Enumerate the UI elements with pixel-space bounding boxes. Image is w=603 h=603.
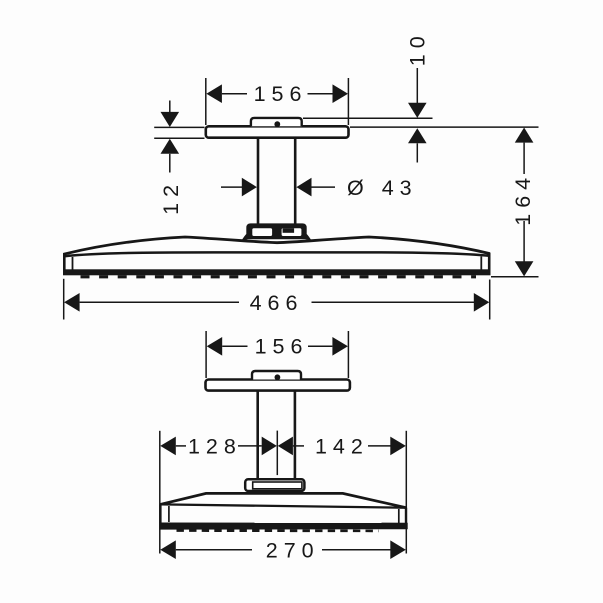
dim 10: vertical line below	[416, 143, 418, 162]
head rim top line (bottom view)	[160, 504, 406, 507]
head rim inner line (top view)	[65, 252, 490, 256]
svg-text:10: 10	[406, 30, 430, 66]
dim 156 bottom: line left segment	[222, 345, 247, 347]
dim 164: label (rotated)	[511, 172, 535, 226]
head dome outline (top view)	[64, 237, 490, 254]
svg-text:270: 270	[266, 538, 320, 562]
dim 164: bottom extension line	[491, 276, 539, 278]
union nut (top view) left cell	[252, 228, 272, 236]
dim diameter 43: left tail line	[221, 186, 242, 188]
dim 142: right arrow	[390, 437, 406, 456]
spray face band (top view)	[63, 269, 491, 275]
head left bevel line (top view)	[72, 257, 74, 270]
dim 270: line right segment	[322, 549, 391, 551]
dim 142: left line segment	[293, 445, 304, 447]
dim 156 top: right extension line	[347, 78, 349, 125]
shower arm column left edge (bottom view)	[256, 391, 259, 480]
dim 466: line right segment	[312, 301, 475, 303]
dim 128/142: left extension line	[159, 431, 161, 554]
spray nozzle teeth (top view)	[81, 275, 477, 278]
dim 164: up arrow	[515, 128, 534, 143]
dim 10: flange-top extension line (right)	[303, 117, 433, 119]
dim 466: left arrow	[64, 293, 80, 312]
dim 270: left arrow	[160, 540, 176, 559]
mounting flange (top view)	[251, 118, 302, 126]
head right bevel line (top view)	[480, 257, 482, 271]
dim 12: vertical line above	[169, 101, 171, 113]
union nut (top view) right cell clip detail	[283, 228, 295, 233]
shower arm column right edge (bottom view)	[294, 391, 297, 480]
dim 156 top: left extension line	[205, 78, 207, 125]
svg-text:466: 466	[250, 291, 304, 315]
shower arm column left edge (top view)	[257, 138, 260, 226]
dim 10: label (rotated)	[406, 30, 430, 66]
dim 142: right tail line	[368, 445, 391, 447]
dim 12: down arrow	[161, 112, 180, 127]
svg-text:128: 128	[188, 434, 242, 458]
head left bevel line (bottom view)	[168, 506, 170, 522]
dim 156 top: right arrow	[333, 84, 349, 103]
dim 164: lower line	[523, 221, 525, 262]
head left edge (bottom view)	[159, 504, 161, 523]
dim 156 top: line right segment	[308, 93, 333, 95]
union nut (bottom view) outer	[245, 479, 304, 491]
dim 12: up arrow	[161, 139, 180, 154]
flange screw dot (top view)	[274, 121, 280, 127]
dim 128/142: right extension line	[405, 431, 407, 554]
spray face band (bottom view)	[159, 523, 408, 530]
svg-text:156: 156	[254, 82, 308, 106]
dim 12: vertical line below	[169, 154, 171, 173]
ceiling plate (top view)	[206, 126, 349, 137]
dim 466: left extension line	[63, 279, 65, 320]
mounting flange (bottom view)	[252, 371, 301, 380]
dim 156 bottom: left arrow	[207, 337, 223, 356]
head left edge (top view)	[63, 253, 66, 272]
dim 10: up arrow	[408, 128, 427, 143]
dim 466: line left segment	[80, 301, 239, 303]
dim 156 bottom: left extension line	[205, 331, 207, 378]
dim 10: down arrow	[408, 103, 427, 118]
dim 128: right line segment	[238, 445, 262, 447]
dim 156 top: left arrow	[206, 84, 222, 103]
svg-text:156: 156	[255, 335, 309, 359]
dim 12: lower extension line (plate bottom, left)	[154, 137, 204, 139]
dim 270: right arrow	[390, 540, 406, 559]
dim 128: bowtie right-pointing arrow	[262, 437, 277, 456]
dim 164: upper line	[523, 143, 525, 174]
head trapezoid outline (bottom view)	[160, 493, 406, 507]
union nut (top view) body with flared feet	[242, 223, 312, 240]
dim diameter 43: left arrow (points right)	[242, 178, 257, 197]
dim 156 bottom: right extension line	[347, 331, 349, 378]
dim 270: line left segment	[176, 549, 252, 551]
dim 466: right arrow	[474, 293, 490, 312]
dim diameter 43: right tail line	[312, 186, 336, 188]
dim 164: top extension line	[350, 126, 539, 128]
head right bevel line (bottom view)	[398, 509, 400, 524]
shower arm column right edge (top view)	[294, 138, 297, 226]
dim 164: down arrow	[515, 261, 534, 276]
union nut (bottom view) inner	[253, 482, 302, 489]
dim 10: vertical line above	[416, 68, 418, 103]
dim 156 top: line left segment	[222, 93, 247, 95]
ceiling plate (bottom view)	[206, 380, 350, 391]
head right edge (top view)	[488, 253, 491, 272]
dim 156 bottom: right arrow	[332, 337, 348, 356]
dim 156 bottom: line right segment	[308, 345, 332, 347]
svg-text:142: 142	[315, 434, 369, 458]
svg-text:164: 164	[511, 172, 535, 226]
union nut (top view) right cell	[282, 228, 302, 236]
dim 128: left tail line	[176, 445, 186, 447]
dim 128: left arrow	[160, 437, 176, 456]
dim 142: bowtie left-pointing arrow	[278, 437, 293, 456]
svg-text:Ø 43: Ø 43	[347, 176, 418, 200]
head right edge (bottom view)	[405, 508, 407, 526]
flange screw dot (bottom view)	[275, 374, 281, 380]
svg-text:12: 12	[159, 179, 183, 215]
column center line (bottom view)	[276, 431, 278, 476]
spray nozzle teeth (bottom view)	[177, 529, 379, 532]
dim 12: label (rotated)	[159, 179, 183, 215]
dim diameter 43: right arrow (points left)	[296, 178, 311, 197]
dim 12: upper extension line (plate top, left)	[154, 126, 204, 128]
dim 466: right extension line	[489, 280, 491, 320]
